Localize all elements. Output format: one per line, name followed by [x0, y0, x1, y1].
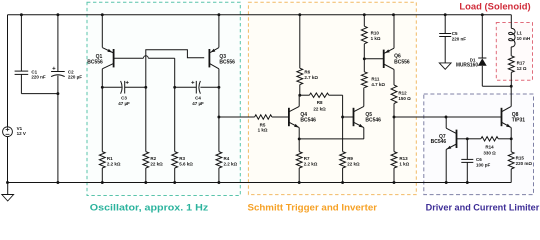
svg-text:R1: R1: [107, 156, 113, 161]
wire Q5 collector: [363, 88, 365, 107]
wire Q5 emitter: [363, 128, 365, 139]
resistor R10: [361, 13, 380, 59]
svg-text:R15: R15: [516, 155, 525, 160]
resistor R14: [467, 137, 511, 156]
svg-text:220 µF: 220 µF: [68, 75, 82, 80]
svg-text:R10: R10: [371, 31, 380, 36]
wire output to Q8 base: [394, 116, 502, 119]
svg-text:R13: R13: [399, 156, 408, 161]
wire Q1 collector: [101, 69, 103, 88]
wire Q4 collector: [298, 95, 300, 106]
svg-text:C2: C2: [68, 69, 74, 74]
section title Schmitt: [248, 203, 378, 213]
wire +12V top rail: [8, 14, 512, 16]
svg-text:220 nF: 220 nF: [31, 75, 46, 80]
svg-text:BC556: BC556: [394, 60, 410, 66]
svg-text:C5: C5: [452, 31, 458, 36]
load section box: [496, 23, 532, 81]
node Q4 collector junction: [298, 94, 301, 97]
wire Q8 emitter: [510, 128, 513, 141]
oscillator section box: [87, 2, 240, 195]
svg-text:BC546: BC546: [431, 139, 447, 145]
svg-text:R2: R2: [150, 156, 156, 161]
wire Q3 emitter: [217, 13, 220, 47]
svg-text:BC546: BC546: [365, 118, 381, 124]
resistor R12: [391, 85, 411, 117]
wire Q1 base with hop: [114, 56, 175, 88]
svg-text:22 kΩ: 22 kΩ: [347, 162, 360, 167]
capacitor C6: [461, 139, 490, 184]
svg-text:12 V: 12 V: [17, 131, 26, 136]
svg-text:47 µF: 47 µF: [192, 101, 204, 106]
node Q3 collector junction: [217, 116, 220, 119]
svg-text:4.7 kΩ: 4.7 kΩ: [371, 82, 385, 87]
svg-text:R14: R14: [485, 144, 494, 149]
section title Driver: [426, 203, 540, 213]
transistor Q7: [431, 128, 457, 149]
resistor R8: [300, 93, 343, 117]
svg-text:C6: C6: [476, 157, 482, 162]
svg-text:R11: R11: [371, 76, 380, 81]
resistor R2: [143, 87, 163, 184]
wire Q6 collector: [393, 69, 395, 85]
wire node C: [173, 86, 196, 89]
svg-text:330 Ω: 330 Ω: [483, 151, 496, 156]
svg-text:1 kΩ: 1 kΩ: [371, 36, 381, 41]
wire Q6 emitter: [392, 13, 395, 48]
svg-text:C4: C4: [195, 96, 201, 101]
transistor Q6: [384, 48, 410, 69]
svg-text:R7: R7: [304, 156, 310, 161]
svg-text:1 kΩ: 1 kΩ: [258, 128, 268, 133]
svg-text:Driver and Current Limiter: Driver and Current Limiter: [426, 203, 540, 213]
wire common emitter rail: [299, 138, 364, 140]
resistor R1: [99, 87, 121, 184]
svg-text:220 mΩ: 220 mΩ: [516, 161, 533, 166]
svg-text:100 pF: 100 pF: [476, 162, 491, 167]
schmitt section box: [248, 2, 416, 194]
svg-text:R5: R5: [260, 122, 266, 127]
resistor R7: [296, 139, 318, 184]
svg-text:150 Ω: 150 Ω: [398, 96, 411, 101]
svg-text:2.2 kΩ: 2.2 kΩ: [107, 162, 121, 167]
svg-text:R9: R9: [347, 156, 353, 161]
wire C4 to Q3 collector: [200, 86, 220, 89]
resistor R17: [508, 56, 526, 86]
svg-text:2.2 kΩ: 2.2 kΩ: [224, 162, 238, 167]
svg-text:BC556: BC556: [219, 59, 235, 65]
svg-text:R12: R12: [398, 90, 407, 95]
svg-text:22 kΩ: 22 kΩ: [150, 162, 163, 167]
resistor R3: [172, 87, 194, 184]
wire Q4 emitter: [298, 128, 301, 141]
svg-text:TIP31: TIP31: [512, 117, 526, 123]
capacitor C3: [118, 81, 130, 106]
wire Q7 emitter: [445, 149, 448, 184]
svg-text:C3: C3: [121, 96, 127, 101]
inductor L1: [509, 15, 531, 56]
wire Q8 collector: [510, 85, 513, 107]
wire ground rail: [8, 182, 512, 184]
resistor R13: [391, 117, 410, 184]
svg-text:2.2 kΩ: 2.2 kΩ: [304, 162, 318, 167]
driver section box: [424, 94, 534, 195]
svg-text:BC546: BC546: [300, 118, 316, 124]
capacitor C2: [51, 13, 82, 184]
section title Oscillator: [90, 203, 209, 213]
node A wire: [101, 86, 122, 89]
resistor R6: [297, 13, 319, 95]
svg-text:MURS160: MURS160: [456, 63, 478, 69]
svg-text:12 Ω: 12 Ω: [517, 66, 527, 71]
resistor R11: [361, 59, 385, 88]
wire Q5 base: [343, 116, 354, 118]
wire C3 to node B: [125, 86, 148, 89]
wire Q1 emitter: [101, 13, 104, 47]
svg-text:Load (Solenoid): Load (Solenoid): [459, 1, 530, 11]
capacitor C5: [439, 13, 466, 63]
wire C3 to Q3 base: [146, 50, 204, 88]
node Q6 base junction: [363, 57, 366, 60]
svg-text:10 mH: 10 mH: [517, 36, 531, 41]
section title Load: [459, 1, 530, 11]
wire Q7 collector: [445, 117, 447, 128]
svg-text:47 µF: 47 µF: [118, 101, 130, 106]
capacitor C1: [15, 13, 46, 93]
transistor Q4: [289, 106, 316, 127]
resistor R15: [508, 139, 532, 183]
resistor R9: [340, 117, 360, 184]
svg-text:R6: R6: [304, 70, 310, 75]
ground: [2, 181, 14, 201]
node output junction: [393, 116, 396, 119]
svg-text:C1: C1: [31, 69, 37, 74]
resistor R5: [219, 115, 289, 133]
svg-text:Oscillator, approx. 1 Hz: Oscillator, approx. 1 Hz: [90, 203, 209, 213]
svg-text:R3: R3: [179, 156, 185, 161]
svg-text:R8: R8: [317, 100, 323, 105]
capacitor C4: [191, 81, 204, 106]
wire Q3 collector: [218, 69, 220, 88]
resistor R4: [216, 87, 238, 184]
svg-text:5.6 kΩ: 5.6 kΩ: [179, 162, 193, 167]
svg-text:Schmitt Trigger and Inverter: Schmitt Trigger and Inverter: [248, 203, 378, 213]
transistor Q1: [87, 48, 113, 69]
svg-text:R17: R17: [517, 60, 526, 65]
diode D1: [456, 13, 511, 86]
svg-text:2.7 kΩ: 2.7 kΩ: [304, 75, 318, 80]
voltage source V1: [3, 15, 26, 183]
svg-text:R4: R4: [224, 156, 230, 161]
transistor Q3: [209, 48, 235, 69]
svg-text:BC556: BC556: [87, 59, 103, 65]
transistor Q5: [354, 106, 382, 127]
wire Q7 base: [457, 137, 469, 140]
svg-text:1 kΩ: 1 kΩ: [399, 162, 409, 167]
node Q5 base junction: [341, 116, 344, 119]
wire C1-C2 bottom: [21, 93, 58, 95]
transistor Q8: [502, 106, 526, 127]
svg-text:L1: L1: [517, 31, 523, 36]
ground under C5: [439, 63, 451, 69]
wire Q6 base: [364, 58, 383, 60]
svg-text:V1: V1: [17, 126, 23, 131]
svg-text:220 nF: 220 nF: [452, 37, 467, 42]
svg-text:22 kΩ: 22 kΩ: [313, 107, 326, 112]
